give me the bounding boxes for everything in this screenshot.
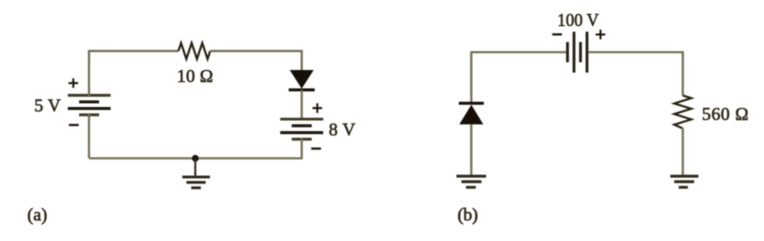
label (b) — [458, 205, 479, 226]
diode (circuit b, cathode up) — [459, 103, 484, 124]
battery 8 V (plates) — [280, 119, 323, 139]
svg-text:5 V: 5 V — [34, 96, 61, 116]
node: junction dot on bottom wire — [192, 155, 199, 162]
wire: circuit (b) left lower segment — [470, 124, 472, 174]
minus sign (5 V battery) — [69, 124, 79, 126]
label 560 Ω — [702, 104, 749, 124]
wire: circuit (a) right segment between diode and 8 V battery — [301, 90, 303, 120]
diode (circuit a, cathode down) — [289, 70, 315, 90]
battery 5 V (plates) — [68, 94, 111, 117]
svg-text:8 V: 8 V — [329, 120, 356, 140]
battery 100 V (horizontal plates) — [568, 32, 588, 73]
plus sign (5 V battery) — [69, 78, 79, 88]
label 8 V — [329, 120, 356, 140]
wire: circuit (a) left lower segment — [88, 114, 90, 158]
wire: circuit (b) top-left segment — [471, 52, 566, 102]
resistor 10 ohm (zigzag) — [178, 43, 210, 59]
svg-text:(b): (b) — [458, 205, 479, 226]
label 5 V — [34, 96, 61, 116]
wire: circuit (b) top-right segment — [588, 52, 683, 95]
svg-text:10 Ω: 10 Ω — [177, 66, 213, 86]
ground (circuit b, right) — [670, 176, 698, 187]
minus sign (100 V battery) — [552, 33, 562, 35]
resistor 560 ohm (vertical zigzag) — [674, 96, 691, 129]
wire: circuit (b) right lower segment — [682, 128, 684, 175]
wire: circuit (a) top-right segment — [210, 51, 302, 71]
svg-text:(a): (a) — [27, 205, 47, 226]
label 10 Ω — [177, 66, 213, 86]
label (a) — [27, 205, 47, 226]
svg-text:560 Ω: 560 Ω — [702, 104, 749, 124]
wire: circuit (a) bottom segment — [89, 138, 302, 158]
minus sign (8 V battery) — [311, 148, 321, 150]
ground (circuit b, left) — [456, 176, 486, 187]
label 100 V — [557, 10, 599, 30]
ground (circuit a) — [182, 158, 210, 188]
svg-text:100 V: 100 V — [557, 10, 599, 30]
wire: circuit (a) top-left segment — [89, 51, 178, 96]
plus sign (100 V battery) — [596, 30, 606, 40]
plus sign (8 V battery) — [313, 103, 323, 113]
